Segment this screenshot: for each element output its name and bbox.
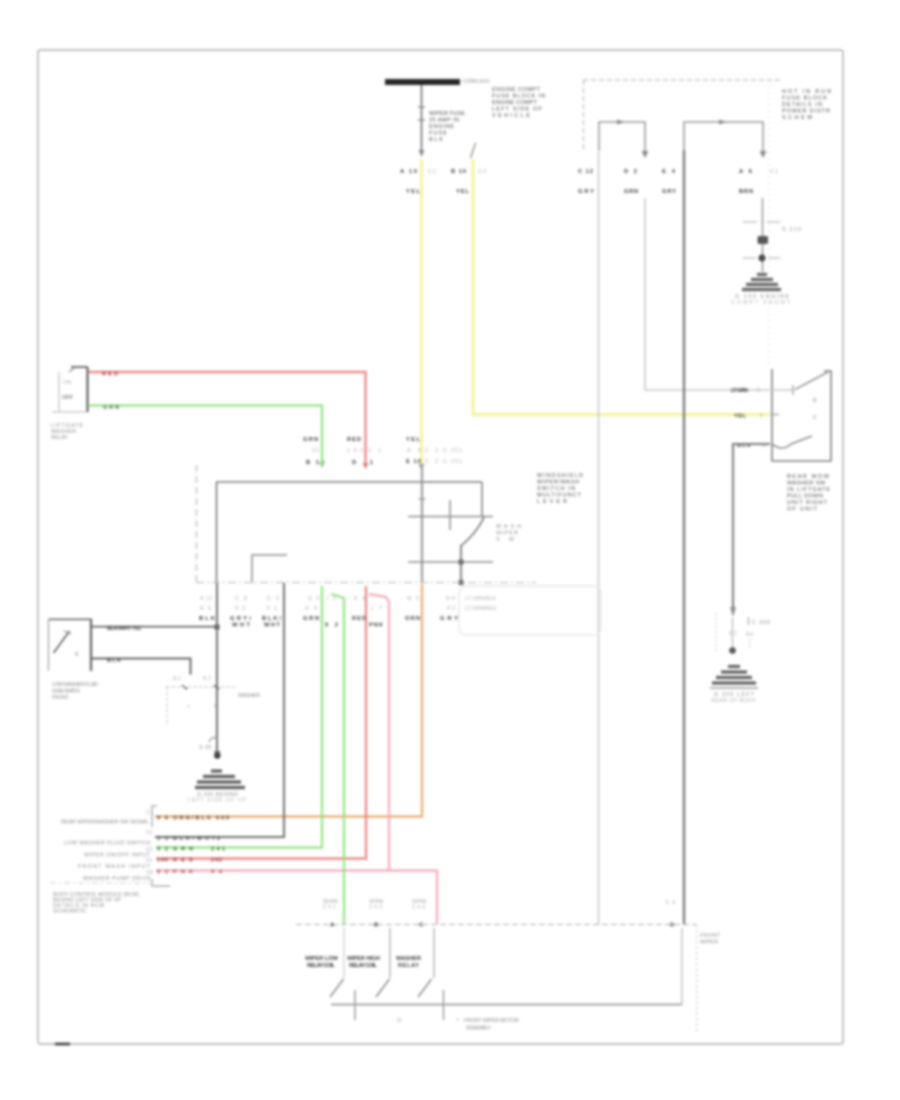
svg-text:WIPER LOW: WIPER LOW: [305, 956, 339, 962]
svg-text:RED: RED: [352, 616, 366, 622]
svg-text:ASSEMBLY: ASSEMBLY: [466, 1026, 491, 1032]
svg-text:GRY/: GRY/: [230, 616, 251, 622]
connector C2 faint outline: [459, 586, 601, 635]
svg-text:E 5: E 5: [267, 596, 279, 602]
svg-text:+: +: [187, 704, 190, 710]
svg-text:S 210: S 210: [782, 227, 801, 233]
pin terminal arrow under fuse: [419, 150, 425, 157]
wiper switch rail 2: [408, 561, 493, 563]
svg-text:J 2: J 2: [326, 596, 336, 602]
svg-text:WHT: WHT: [232, 623, 250, 629]
svg-text:RELAY COIL: RELAY COIL: [349, 963, 377, 969]
switch blade inside rear washer switch: [795, 372, 828, 390]
svg-text:GRN: GRN: [173, 847, 193, 853]
svg-text:YEL: YEL: [456, 189, 469, 195]
motor arc mark: [209, 737, 217, 742]
main wire x217 down to ground: [216, 583, 218, 751]
terminal taper: [730, 607, 736, 617]
ground G200 symbol: [195, 771, 245, 788]
svg-text:A 6: A 6: [739, 169, 753, 175]
svg-text:L 7: L 7: [371, 606, 382, 612]
wire lt green x645 to washer switch: [645, 198, 770, 390]
svg-text:FRONT WASH INPUT: FRONT WASH INPUT: [78, 864, 151, 870]
svg-text:WINDSHIELD: WINDSHIELD: [537, 473, 583, 479]
svg-text:SW: SW: [496, 537, 515, 543]
rear washer switch box: [772, 369, 831, 461]
svg-text:LEFT SIDE OF: LEFT SIDE OF: [492, 107, 543, 113]
svg-text:OF UNIT: OF UNIT: [787, 507, 818, 513]
svg-text:LT GRN/BLK: LT GRN/BLK: [465, 596, 496, 602]
svg-text:FUSE: FUSE: [429, 131, 447, 137]
switch blade lower left box: [54, 631, 70, 653]
component boundary dash-dot line: [196, 582, 536, 584]
svg-text:REAR WIPER/WASHER SW SIGNAL: REAR WIPER/WASHER SW SIGNAL: [61, 820, 149, 826]
svg-text:RED: RED: [347, 437, 361, 443]
svg-text:WHT: WHT: [264, 623, 280, 629]
svg-text:BLK: BLK: [199, 616, 216, 622]
svg-text:M 5: M 5: [407, 596, 419, 602]
svg-text:LEVER: LEVER: [537, 499, 567, 505]
green wire 2 to front wiper motor: [331, 594, 344, 924]
svg-text:B: B: [374, 923, 378, 929]
svg-text:FRONT: FRONT: [52, 695, 70, 701]
svg-text:IN LIFTGATE: IN LIFTGATE: [787, 487, 830, 493]
svg-text:GRN: GRN: [303, 437, 318, 443]
svg-text:ENGINE: ENGINE: [429, 124, 454, 130]
orange wire from wiper switch to BCM: [155, 584, 422, 817]
svg-text:LT GRN: LT GRN: [731, 388, 748, 394]
splice S200 with junction dot: [743, 257, 756, 259]
connector bracket C305: [715, 613, 717, 652]
svg-text:A 1: A 1: [173, 676, 181, 682]
ground G103 symbol: [742, 275, 781, 290]
svg-text:C 305: C 305: [752, 620, 770, 626]
green wire lower segment to BCM: [156, 586, 322, 848]
wire to accessory ground x763: [762, 198, 764, 272]
stub hook at x252: [252, 555, 287, 583]
svg-text:FUSE BLOCK IN: FUSE BLOCK IN: [492, 94, 545, 100]
pin ticks on bus: [354, 990, 356, 1020]
svg-text:F 1: F 1: [267, 606, 277, 612]
svg-text:640: 640: [216, 816, 229, 822]
fuse link hook 1: [599, 122, 645, 151]
svg-text:B 6: B 6: [200, 606, 211, 612]
terminal taper and splice dot: [214, 751, 221, 758]
svg-text:PNK: PNK: [173, 870, 193, 876]
housing left edge / wire: [216, 482, 218, 583]
svg-text:DETAILS IN: DETAILS IN: [782, 102, 822, 108]
svg-text:M: M: [397, 1018, 402, 1024]
svg-text:FRONT WIPER MOTOR: FRONT WIPER MOTOR: [464, 1018, 519, 1024]
svg-text:S 4: S 4: [665, 900, 675, 906]
multifunction switch housing top: [216, 481, 482, 483]
wire stub to ground dot: [732, 618, 734, 647]
svg-text:D: D: [670, 923, 674, 929]
wiper switch rail 1: [408, 516, 493, 518]
svg-text:GRY: GRY: [440, 616, 458, 622]
svg-text:25 AMP IN: 25 AMP IN: [429, 118, 459, 124]
svg-text:WASHER: WASHER: [396, 956, 422, 962]
svg-text:244: 244: [412, 905, 425, 911]
svg-text:YEL: YEL: [734, 414, 746, 420]
pink wire row to BCM and washer motor: [156, 871, 437, 925]
wire green from left box: [88, 406, 322, 467]
svg-text:GRN: GRN: [303, 616, 319, 622]
svg-text:PNK: PNK: [369, 623, 384, 629]
svg-text:BLK: BLK: [429, 137, 443, 143]
svg-text:RELAY: RELAY: [398, 963, 419, 969]
svg-text:A 12: A 12: [200, 596, 212, 602]
fuse F1 WIPER: [421, 85, 423, 150]
wiper motor box dashed right: [696, 925, 698, 1033]
svg-text:N 8: N 8: [446, 596, 455, 602]
svg-text:BRN: BRN: [739, 189, 753, 195]
pin stub for yellow wire 2: [471, 143, 476, 158]
svg-text:92: 92: [312, 448, 319, 454]
svg-text:S 20: S 20: [199, 745, 211, 751]
svg-text:C7: C7: [146, 810, 153, 816]
svg-text:RED: RED: [102, 372, 118, 378]
svg-text:WASHER PUMP DRIVE: WASHER PUMP DRIVE: [83, 876, 151, 882]
BCM connector bracket bottom: [152, 879, 170, 886]
wire from fluid switch to main (stub1): [92, 626, 217, 628]
fuse block dashed outline right: [768, 80, 770, 366]
svg-text:LOW WASHER FLUID: LOW WASHER FLUID: [52, 682, 98, 688]
svg-text:C 201: C 201: [443, 459, 462, 465]
svg-text:140: 140: [347, 448, 363, 454]
svg-text:241: 241: [323, 905, 336, 911]
svg-text:WIPER HIGH: WIPER HIGH: [347, 956, 380, 962]
svg-text:C 1: C 1: [368, 448, 381, 454]
svg-text:C 8: C 8: [235, 596, 247, 602]
svg-text:G 3: G 3: [308, 596, 319, 602]
svg-text:REAR WDW: REAR WDW: [787, 474, 830, 480]
yellow pin tick inside: [773, 414, 779, 416]
svg-text:D 2: D 2: [235, 606, 245, 612]
svg-text:HOT IN RUN: HOT IN RUN: [782, 89, 831, 95]
svg-text:WIPER: WIPER: [496, 531, 518, 537]
wire yellow 2 (to washer switch): [473, 159, 770, 415]
svg-text:ENGINE COMPT: ENGINE COMPT: [492, 87, 541, 93]
svg-text:WIPER: WIPER: [700, 940, 718, 946]
svg-text:A 10: A 10: [400, 169, 417, 175]
svg-text:241: 241: [211, 847, 225, 853]
splice element: [758, 236, 769, 244]
svg-text:140: 140: [157, 858, 168, 864]
svg-text:SWITCH IN: SWITCH IN: [537, 486, 575, 492]
svg-text:A 9: A 9: [407, 448, 421, 454]
svg-text:D 2: D 2: [624, 169, 637, 175]
svg-text:B: B: [813, 398, 817, 404]
svg-text:B4: B4: [746, 632, 753, 638]
svg-text:C 2: C 2: [425, 448, 438, 454]
svg-text:OFF: OFF: [62, 395, 74, 401]
wire gray x598 long: [598, 152, 600, 924]
svg-text:C1: C1: [428, 169, 436, 175]
ground G305 symbol: [712, 667, 756, 684]
svg-text:C1: C1: [770, 169, 778, 175]
pink wire to front wiper motor: [369, 594, 389, 871]
svg-text:WIPER/WASH: WIPER/WASH: [537, 480, 579, 486]
svg-text:BLK/: BLK/: [262, 616, 281, 622]
in-line connector at 222: [743, 221, 757, 223]
svg-text:B 10: B 10: [451, 169, 466, 175]
svg-text:P 3: P 3: [447, 606, 455, 612]
wiper switch blade: [461, 517, 484, 546]
svg-text:GRY: GRY: [662, 189, 676, 195]
svg-text:ORN: ORN: [405, 616, 420, 622]
wire yellow 1 (fuse to C201): [420, 159, 423, 465]
svg-text:92: 92: [325, 623, 338, 629]
svg-text:C2: C2: [478, 169, 486, 175]
light wire x196: [196, 465, 198, 583]
lower left washer fluid switch box: [49, 618, 93, 620]
svg-text:243: 243: [369, 905, 382, 911]
fuse block dashed outline left: [583, 80, 585, 152]
svg-text:BLK/WHT 751: BLK/WHT 751: [107, 626, 141, 632]
svg-text:B 2: B 2: [203, 676, 211, 682]
svg-text:C 2: C 2: [425, 459, 438, 465]
svg-text:YEL: YEL: [406, 437, 420, 443]
border artifact bottom-left: [55, 1043, 70, 1046]
fuse block dashed outline top: [583, 79, 780, 81]
svg-text:K 4: K 4: [354, 596, 365, 602]
fuse link hook 2: [684, 122, 763, 151]
svg-text:LEFT SIDE OF I/P: LEFT SIDE OF I/P: [188, 798, 246, 804]
svg-text:C: C: [419, 923, 424, 929]
svg-text:SCHEMATIC: SCHEMATIC: [53, 909, 86, 915]
svg-text:BLK: BLK: [107, 658, 121, 664]
svg-text:WASHER: WASHER: [238, 693, 260, 699]
relay blades: [330, 979, 344, 997]
svg-text:A: A: [330, 923, 335, 929]
svg-text:D1: D1: [146, 830, 153, 836]
svg-text:SCHEM: SCHEM: [782, 115, 812, 121]
svg-text:WIPER FUSE: WIPER FUSE: [429, 111, 465, 117]
svg-text:VEHICLE: VEHICLE: [492, 113, 530, 119]
washer pump dashed outline: [166, 686, 236, 688]
svg-text:WASH: WASH: [496, 524, 521, 530]
svg-text:ENGINE COMPT: ENGINE COMPT: [492, 100, 538, 106]
svg-text:UNIT RIGHT: UNIT RIGHT: [787, 500, 828, 506]
splice dot S305: [729, 647, 736, 654]
svg-text:YEL: YEL: [406, 189, 420, 195]
battery feed bus bar: [385, 79, 460, 85]
svg-text:E: E: [757, 388, 761, 394]
svg-text:HOT AT ALL TIMES: HOT AT ALL TIMES: [462, 79, 490, 85]
svg-text:LOW WASHER FLUID SWITCH: LOW WASHER FLUID SWITCH: [64, 841, 150, 847]
svg-text:POWER DISTR: POWER DISTR: [782, 109, 830, 115]
housing right edge: [481, 482, 483, 517]
wire terminal tips at C201: [319, 462, 325, 468]
svg-text:C 12: C 12: [578, 169, 593, 175]
svg-text:B: B: [75, 652, 79, 658]
svg-text:GRN: GRN: [103, 405, 119, 411]
svg-text:FRONT: FRONT: [700, 933, 721, 939]
svg-text:E 4: E 4: [662, 169, 676, 175]
svg-text:GRN: GRN: [624, 189, 638, 195]
svg-text:COMPT FRONT: COMPT FRONT: [731, 300, 791, 306]
contact tick: [449, 500, 451, 530]
BCM connector bracket top: [152, 806, 157, 827]
svg-text:LT GRN/RED: LT GRN/RED: [465, 606, 496, 612]
svg-text:H 9: H 9: [305, 606, 317, 612]
wire black from washer switch down: [733, 444, 770, 607]
wiper contact inside box: [772, 436, 812, 448]
red wire lower segment to BCM: [156, 586, 366, 859]
svg-text:PULL DOWN: PULL DOWN: [787, 494, 823, 500]
svg-text:+: +: [456, 1017, 459, 1023]
wire gray center x422 through housing: [421, 466, 423, 583]
svg-text:MULTIFUNCT: MULTIFUNCT: [537, 493, 582, 499]
wire from fluid switch (stub2): [92, 659, 191, 675]
svg-text:C: C: [813, 415, 817, 421]
common bus in motor box: [331, 1004, 682, 1006]
svg-text:RELAY COIL: RELAY COIL: [307, 963, 335, 969]
upper left cruise switch box: [71, 366, 88, 368]
svg-text:C 201: C 201: [443, 448, 462, 454]
svg-text:FUSE BLOCK: FUSE BLOCK: [782, 96, 827, 102]
svg-text:GRY: GRY: [578, 189, 594, 195]
svg-text:242: 242: [211, 858, 222, 864]
svg-text:2: 2: [217, 836, 220, 842]
wire dark gray x684 long: [683, 150, 685, 924]
wires inside motor box: [343, 928, 345, 978]
svg-text:RELAY: RELAY: [51, 435, 68, 441]
svg-text:WIPER ON/OFF INPUT: WIPER ON/OFF INPUT: [84, 853, 151, 859]
svg-text:LEVEL SWITCH: LEVEL SWITCH: [52, 689, 80, 695]
svg-text:WASHER SW: WASHER SW: [787, 481, 826, 487]
svg-text:RED: RED: [173, 858, 193, 864]
svg-text:ON: ON: [63, 380, 71, 386]
svg-text:REAR OF BODY: REAR OF BODY: [711, 698, 756, 704]
wiper motor box dashed top: [296, 924, 696, 926]
dark wire x284 to BCM: [155, 583, 284, 837]
wire red from left box: [88, 372, 366, 466]
wire from blade down: [460, 545, 462, 583]
